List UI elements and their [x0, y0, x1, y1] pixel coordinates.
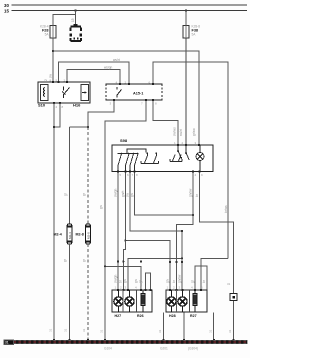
svg-text:M2-4: M2-4 — [68, 232, 72, 239]
inner dashed box H16 — [81, 85, 89, 101]
wire F28 down to relay with junction — [52, 38, 54, 82]
wire A15-1 pin right to far right descent — [153, 62, 228, 259]
ground wire right box to rail — [183, 313, 185, 341]
right box pin dots — [169, 289, 202, 291]
svg-text:S10: S10 — [38, 103, 46, 108]
wire S98 pin 134.5 right join — [135, 173, 194, 216]
wire bus15 to fuse F38 — [185, 11, 187, 26]
dashed wire down to M2-8 — [87, 127, 89, 224]
svg-text:30: 30 — [4, 3, 9, 8]
svg-text:sw/gn: sw/gn — [114, 188, 118, 197]
junction dots above right lamp box — [169, 261, 183, 263]
svg-text:sw: sw — [49, 73, 53, 78]
junction dot at 53,51 — [52, 50, 54, 52]
wire relay pin 60 down merging left — [54, 103, 60, 127]
relay bottom pin dots — [53, 102, 61, 104]
svg-text:2: 2 — [44, 79, 48, 81]
resistor R27 in right box — [193, 290, 197, 312]
relay box S10/H16 — [38, 82, 90, 103]
wire S98 pin 118 straight down to left lamp box — [117, 173, 119, 291]
loop above left box — [146, 273, 151, 290]
ground feed from far right to right box — [201, 259, 228, 291]
S98 top pin dots — [177, 144, 200, 146]
left box pin dots — [117, 289, 152, 291]
svg-text:31: 31 — [64, 328, 68, 332]
svg-text:31: 31 — [227, 282, 231, 286]
S98 bottom pin dots — [117, 171, 201, 173]
svg-text:M2-8: M2-8 — [86, 232, 90, 239]
svg-text:gr/sw: gr/sw — [192, 128, 196, 136]
fuse F28 — [50, 26, 56, 39]
svg-text:gn: gn — [130, 193, 134, 197]
relay contact symbol K — [64, 87, 70, 99]
switch symbol in A15-1 — [117, 87, 122, 98]
dashed wire M2-8 to ground rail — [87, 244, 89, 340]
relay top pin dots — [52, 81, 68, 83]
wire bus 15 — [12, 10, 248, 12]
wire stub to accessory symbol — [75, 15, 77, 26]
labels above right lamp box — [166, 274, 207, 283]
junction dot at 182,231 — [181, 230, 183, 232]
wire relay pin to A15-1 lower (ws/gn) — [67, 70, 120, 85]
ground rail 31 — [4, 340, 247, 345]
svg-text:31: 31 — [82, 328, 86, 332]
wire mid pin through box — [122, 290, 124, 312]
S98 internal junction dots — [120, 150, 187, 159]
junction on bus 15 feeding F28 branch — [74, 9, 76, 11]
hazard switch box S98 — [112, 145, 213, 172]
pin numbers above right lamp box — [167, 286, 204, 290]
wire A15-1 pin 114 down left to variant junction — [88, 101, 114, 127]
fuse F38 — [183, 26, 189, 39]
svg-text:(G304): (G304) — [188, 347, 198, 351]
svg-text:sw: sw — [126, 192, 130, 197]
wire A15-1 pin 153 down right to S98 top — [153, 101, 178, 145]
S98 top pin numbers — [174, 141, 197, 145]
label F38 — [192, 25, 201, 37]
svg-text:M2-8: M2-8 — [76, 233, 84, 237]
junction dot 125.3,240.5 — [124, 239, 126, 241]
A15-1 pin numbers — [110, 81, 158, 106]
svg-text:sw/gn: sw/gn — [114, 274, 118, 283]
wire relay pin 54 down to ground rail — [53, 103, 55, 340]
junction dot 105,266.3 — [104, 265, 106, 267]
right lamp box H28/R27 — [166, 290, 207, 312]
svg-text:31: 31 — [100, 329, 104, 333]
inner dashed box S10 — [41, 85, 49, 101]
svg-text:31: 31 — [228, 329, 232, 333]
labels above S98 wires — [173, 127, 197, 136]
indicator lamp in S98 — [196, 145, 204, 171]
svg-text:31: 31 — [49, 328, 53, 332]
junction dot at 182,256.3 — [181, 257, 183, 259]
junction dot variant branch — [87, 126, 89, 128]
svg-text:S98: S98 — [120, 138, 128, 143]
labels below S98 wires — [114, 188, 229, 213]
resistor R26 in left box — [141, 290, 145, 312]
accessory symbol (cigar lighter) at top — [71, 25, 82, 41]
svg-text:R26: R26 — [137, 314, 144, 318]
lamp H28 left — [167, 290, 176, 312]
wire A15-1 pin 146 down to long left feed — [105, 101, 146, 340]
svg-text:H27: H27 — [115, 314, 122, 318]
wire from bus 15 down and left to fuse F28 — [53, 11, 76, 26]
wire y127 branch — [70, 126, 89, 128]
svg-text:31: 31 — [5, 341, 9, 345]
svg-text:gn/sw: gn/sw — [178, 274, 182, 283]
label F28 — [40, 25, 49, 37]
ground rail junction dots — [53, 339, 235, 341]
A15-1 pin dots top — [119, 83, 154, 85]
svg-text:R27: R27 — [190, 314, 197, 318]
component M2-8 — [86, 224, 91, 244]
lamp H27 left — [114, 290, 123, 312]
svg-text:gn/sw: gn/sw — [189, 188, 193, 197]
svg-text:31: 31 — [158, 329, 162, 333]
divider in right box — [189, 290, 191, 312]
wire from A15-1 feed down to M2-4 — [69, 127, 71, 224]
wire S98 pin 130 down right to x182 — [130, 173, 182, 291]
wire F38 down to hazard switch S98 — [185, 38, 187, 145]
svg-text:sw/rt: sw/rt — [179, 129, 183, 136]
junction dot at 193,215 — [192, 214, 194, 216]
S98 bottom pin numbers — [120, 173, 204, 177]
feed from long left wire to lamp box pins — [105, 266, 141, 290]
svg-text:sw/ws: sw/ws — [173, 127, 177, 136]
svg-text:gn: gn — [166, 279, 170, 283]
lamp H28 right — [178, 290, 187, 312]
divider in left box — [136, 290, 138, 312]
lamp H27 right — [125, 290, 134, 312]
wire relay pin to A15-1 upper (ws/rt) — [59, 62, 130, 84]
wire M2-4 to ground rail — [69, 244, 71, 340]
A15-1 pin dots bottom — [113, 99, 154, 101]
svg-text:G104: G104 — [104, 347, 112, 351]
junction dot 54,127 — [53, 126, 55, 128]
svg-text:H16: H16 — [73, 103, 81, 108]
box A15-1 — [106, 84, 162, 100]
svg-text:15: 15 — [71, 18, 75, 22]
S98 internal contacts — [118, 145, 190, 171]
ground point names below rail — [104, 347, 198, 351]
junction on bus 15 feeding fuse F38 — [185, 9, 187, 11]
left lamp box H27/R26 — [112, 290, 152, 312]
svg-text:br/ws: br/ws — [224, 205, 228, 213]
svg-text:G201: G201 — [160, 347, 168, 351]
coil symbol in S10 — [44, 88, 46, 97]
svg-text:31: 31 — [209, 329, 213, 333]
svg-text:15: 15 — [4, 9, 9, 14]
wire S98 pin 125.5 down right to right lamp box — [125, 173, 170, 291]
arrow symbol in H16 — [82, 92, 87, 94]
svg-text:A15-1: A15-1 — [133, 92, 143, 96]
svg-text:ws/gn: ws/gn — [104, 66, 113, 70]
svg-text:M2-4: M2-4 — [54, 233, 62, 237]
relay top pin numbers — [50, 79, 66, 83]
labels 31 on ground wires — [49, 328, 233, 333]
cross feed left lamp to x182 — [128, 258, 182, 290]
svg-text:ws/rt: ws/rt — [113, 58, 120, 62]
svg-text:H28: H28 — [169, 314, 176, 318]
svg-text:gn/rt: gn/rt — [121, 191, 125, 197]
svg-text:gn: gn — [99, 205, 103, 209]
wire jog down to left box pin — [123, 241, 125, 291]
wire mid pin through right box — [176, 290, 178, 312]
pin numbers above left lamp box — [115, 286, 143, 290]
loop above right box — [195, 266, 207, 290]
wire from junction right and down to S98 pin — [53, 51, 199, 145]
ground symbol square on right drop — [230, 294, 237, 301]
ground wire right compartment to rail — [213, 313, 215, 341]
component M2-4 — [67, 224, 72, 244]
svg-text:gn: gn — [134, 279, 138, 283]
junction dots above left lamp box — [117, 260, 142, 262]
ground wire left box to rail — [163, 313, 165, 341]
labels above left lamp box — [114, 274, 143, 283]
wire S98 pin 193 down left to x176.5 — [177, 173, 194, 291]
svg-text:gn: gn — [123, 279, 127, 283]
wire bus 30 — [12, 4, 248, 6]
wire S98 pin 199.5 down right to ground drop — [200, 173, 234, 341]
